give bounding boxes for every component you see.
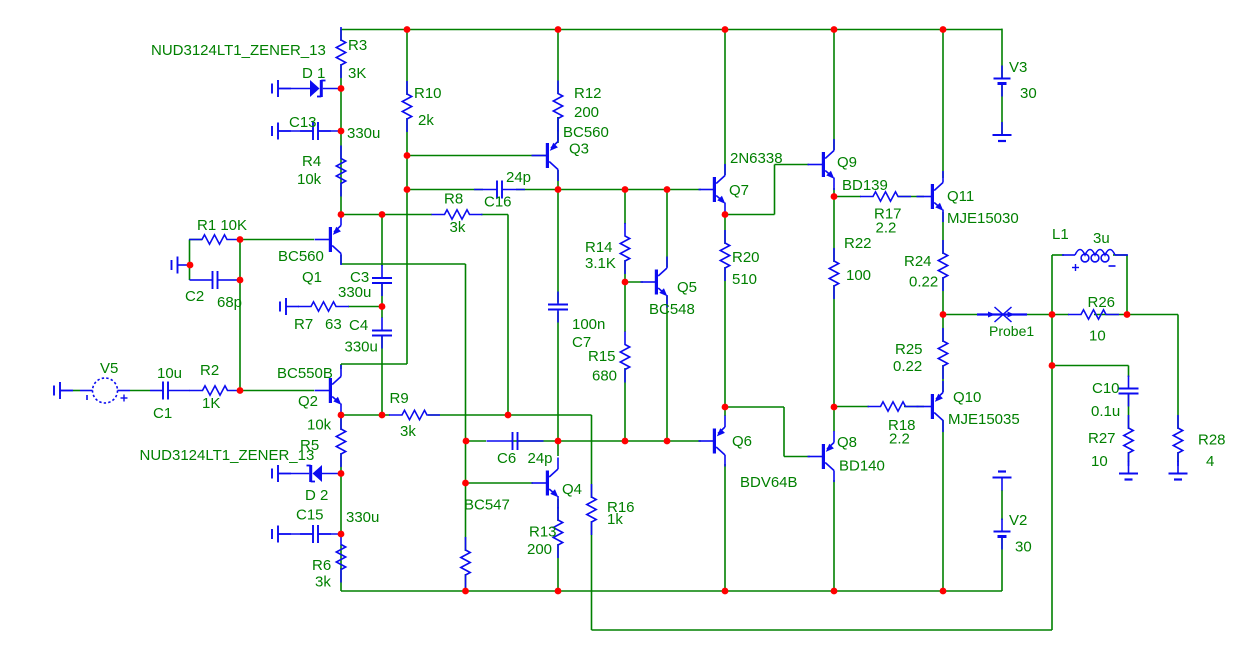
svg-text:BC550B: BC550B [277, 365, 333, 382]
wire R10 column [406, 29, 408, 95]
svg-text:30: 30 [1020, 85, 1037, 102]
capacitor C4 [372, 330, 392, 332]
junction node C6 left [463, 438, 470, 445]
wire Q8 collector down [833, 480, 835, 591]
zener diode D2 [271, 469, 273, 479]
zener diode D1 [271, 84, 273, 94]
wire Q3 emitter R12 [557, 117, 559, 140]
junction node rail Q9 [831, 26, 838, 33]
resistor R1 [189, 235, 240, 244]
resistor R10 [402, 81, 411, 132]
junction node feedback tap [1049, 362, 1056, 369]
junction node D1 [338, 85, 345, 92]
junction node C16 right [555, 186, 562, 193]
svg-text:Q10: Q10 [953, 389, 981, 406]
svg-text:Q1: Q1 [302, 269, 322, 286]
svg-text:MJE15035: MJE15035 [948, 411, 1020, 428]
svg-text:BC548: BC548 [649, 301, 695, 318]
svg-text:BDV64B: BDV64B [740, 474, 798, 491]
svg-text:1k: 1k [607, 511, 623, 528]
svg-text:3.1K: 3.1K [585, 255, 616, 272]
junction node R1 right [237, 236, 244, 243]
svg-text:C1: C1 [153, 405, 172, 422]
svg-text:R4: R4 [302, 153, 321, 170]
resistor R13 [553, 507, 562, 558]
svg-text:R3: R3 [348, 37, 367, 54]
resistor R16 [587, 484, 596, 535]
resistor R4 [336, 146, 345, 197]
svg-text:R6: R6 [312, 557, 331, 574]
resistor R26 [1068, 310, 1119, 319]
svg-text:330u: 330u [345, 339, 378, 356]
capacitor C16 [496, 181, 498, 199]
resistor R9 [389, 410, 440, 419]
svg-text:68p: 68p [217, 294, 242, 311]
capacitor C3 [372, 277, 392, 279]
junction node Q6 emitter [722, 404, 729, 411]
svg-text:R15: R15 [588, 348, 616, 365]
svg-text:C13: C13 [289, 114, 317, 131]
svg-text:R8: R8 [444, 191, 463, 208]
resistor R11 [461, 537, 470, 588]
junction node D2 [338, 470, 345, 477]
resistor R14 [620, 223, 629, 274]
resistor R12 [553, 81, 562, 132]
junction node Q5 emitter [664, 438, 671, 445]
svg-text:C6: C6 [497, 450, 516, 467]
junction node R4/Q1e [338, 211, 345, 218]
wire Q3 collector to C16 node [557, 170, 559, 190]
svg-text:D 2: D 2 [305, 487, 328, 504]
svg-text:Q4: Q4 [562, 481, 582, 498]
wire V3 column [1001, 29, 1003, 79]
battery V2 [1001, 519, 1003, 532]
capacitor C6 [512, 432, 514, 450]
wire Q6 emitter row to Q8 [725, 406, 784, 408]
capacitor C1 [150, 390, 163, 392]
wire R12 column [557, 29, 559, 94]
L1 polarity marks [1072, 267, 1079, 269]
svg-text:C4: C4 [349, 317, 368, 334]
resistor R5 [336, 416, 345, 467]
junction node rail Q11 [940, 26, 947, 33]
junction node rail R12 [555, 26, 562, 33]
svg-text:3k: 3k [400, 423, 416, 440]
source V5 [93, 378, 118, 403]
svg-text:BD140: BD140 [839, 458, 885, 475]
wire Q2 base row [240, 390, 314, 392]
junction node rail R10 [404, 26, 411, 33]
junction node Q7 emitter [722, 211, 729, 218]
svg-text:C16: C16 [484, 194, 512, 211]
svg-text:3k: 3k [450, 219, 466, 236]
wire C7 column [557, 190, 559, 303]
svg-text:Q3: Q3 [569, 141, 589, 158]
capacitor C13 [271, 126, 273, 136]
svg-text:Q9: Q9 [837, 154, 857, 171]
wire R25 column [942, 315, 944, 343]
transistor Q6 BDV64B PNP [713, 429, 716, 454]
wire R1 output to vertical [239, 240, 241, 391]
wire R13 column [557, 499, 559, 521]
svg-text:330u: 330u [346, 509, 379, 526]
resistor R2 [190, 386, 241, 395]
wire Q4 base row [465, 441, 467, 483]
wire R26 to R28 corner [1127, 314, 1178, 316]
resistor R18 [868, 402, 919, 411]
transistor Q7 2N6338 NPN [713, 177, 716, 202]
svg-text:R22: R22 [844, 235, 872, 252]
svg-text:R28: R28 [1198, 432, 1226, 449]
wire Q2 collector row [340, 364, 342, 369]
resistor R22 [829, 248, 838, 299]
capacitor C10 [1119, 388, 1139, 390]
svg-text:R12: R12 [574, 85, 602, 102]
junction node rail Q7 [722, 26, 729, 33]
svg-text:R24: R24 [904, 253, 932, 270]
svg-text:510: 510 [732, 271, 757, 288]
ground V2 [998, 470, 1006, 472]
svg-text:200: 200 [527, 541, 552, 558]
svg-text:R10: R10 [414, 85, 442, 102]
wire output row [943, 314, 977, 316]
svg-text:BC560: BC560 [563, 124, 609, 141]
battery V3 [1001, 66, 1003, 79]
wire Q7 emitter row [725, 214, 775, 216]
junction node rail R11 [462, 588, 469, 595]
svg-text:BC547: BC547 [464, 497, 510, 514]
wire zobel row [1052, 365, 1129, 367]
svg-text:2.2: 2.2 [876, 220, 897, 237]
junction node C3 top [379, 211, 386, 218]
svg-text:R27: R27 [1088, 430, 1116, 447]
junction node C16 left [404, 186, 411, 193]
wire R22 column [833, 197, 835, 263]
svg-text:Q2: Q2 [298, 393, 318, 410]
junction node C2 ground [187, 262, 194, 269]
wire Q10 collector down [942, 420, 944, 591]
svg-text:MJE15030: MJE15030 [947, 210, 1019, 227]
ground V3 [1001, 122, 1003, 135]
probe Probe1 [977, 313, 1027, 315]
resistor R7 [298, 302, 349, 311]
svg-text:3K: 3K [348, 65, 366, 82]
wire output to R26 [1052, 314, 1069, 316]
junction node Q9 emitter [831, 193, 838, 200]
svg-text:30: 30 [1015, 539, 1032, 556]
svg-text:Q11: Q11 [947, 188, 974, 205]
junction node Q4 base [462, 480, 469, 487]
svg-text:Q6: Q6 [732, 433, 752, 450]
wire C16 row / Q7 base row [407, 189, 483, 191]
wire feedback node down [1051, 315, 1053, 366]
wire R15 column [624, 282, 626, 332]
transistor Q8 BD140 PNP [822, 444, 825, 469]
svg-text:Q8: Q8 [837, 434, 857, 451]
resistor R25 [938, 328, 947, 379]
wire Q1 base row [240, 239, 314, 241]
wire R24 column [942, 212, 944, 254]
svg-text:2k: 2k [418, 112, 434, 129]
wire L1 branch [1051, 255, 1053, 315]
junction node rail R13 [555, 588, 562, 595]
resistor R8 [432, 210, 483, 219]
transistor Q9 BD139 NPN [822, 152, 825, 177]
wire R18 row [834, 406, 869, 408]
resistor R24 [938, 240, 947, 291]
junction node C2 right [237, 277, 244, 284]
resistor R27 [1124, 415, 1133, 466]
junction node C3 bottom R7 [379, 303, 386, 310]
ground for V5 [53, 386, 55, 396]
svg-text:V2: V2 [1009, 512, 1027, 529]
wire C6 row [466, 440, 487, 442]
transistor Q4 BC547 NPN [546, 471, 549, 496]
svg-text:10u: 10u [157, 365, 182, 382]
svg-text:0.22: 0.22 [893, 358, 922, 375]
svg-text:R20: R20 [732, 249, 760, 266]
svg-text:R2: R2 [200, 362, 219, 379]
svg-text:330u: 330u [347, 125, 380, 142]
svg-text:2.2: 2.2 [889, 431, 910, 448]
wire Q5 emitter down [666, 296, 668, 441]
svg-text:680: 680 [592, 368, 617, 385]
wire R9 row [341, 414, 390, 416]
svg-text:BD139: BD139 [842, 177, 888, 194]
wire Q1 collector row [340, 255, 342, 264]
svg-text:24p: 24p [506, 169, 531, 186]
svg-text:4: 4 [1206, 453, 1214, 470]
svg-text:10: 10 [1089, 328, 1106, 345]
svg-text:NUD3124LT1_ZENER_13: NUD3124LT1_ZENER_13 [151, 42, 326, 59]
svg-text:10k: 10k [297, 171, 322, 188]
wire R5 R6 column [340, 415, 342, 430]
svg-text:100: 100 [846, 267, 871, 284]
capacitor C7 [548, 304, 568, 306]
svg-text:R1 10K: R1 10K [197, 217, 247, 234]
svg-text:100n: 100n [572, 316, 605, 333]
junction node Q3 base [404, 152, 411, 159]
junction node Q2 emitter [338, 412, 345, 419]
wire Q5 base [625, 281, 643, 283]
wire feedback bottom run [592, 629, 1053, 631]
svg-text:C2: C2 [185, 288, 204, 305]
wire R8 right corner [481, 214, 508, 216]
capacitor C15 [271, 529, 273, 539]
svg-text:24p: 24p [528, 450, 553, 467]
junction node output probe [1049, 311, 1056, 318]
svg-text:63: 63 [325, 316, 342, 333]
ground R27 [1128, 461, 1130, 474]
junction node R15 bottom [622, 438, 629, 445]
junction node Q5 collector [664, 186, 671, 193]
svg-text:3k: 3k [315, 574, 331, 591]
ground R28 [1177, 461, 1179, 474]
svg-text:200: 200 [574, 104, 599, 121]
wire R3 column [340, 29, 342, 41]
svg-text:10: 10 [1091, 453, 1108, 470]
wire Q9 collector column [833, 29, 835, 150]
svg-text:330u: 330u [338, 284, 371, 301]
junction node R14 top [622, 186, 629, 193]
transistor Q1 BC560 PNP [329, 227, 332, 252]
svg-text:R13: R13 [529, 524, 557, 541]
wire Q9 emitter to R17 [834, 196, 861, 198]
svg-text:V5: V5 [100, 360, 118, 377]
svg-text:R7: R7 [294, 316, 313, 333]
junction node input [237, 387, 244, 394]
svg-text:R14: R14 [585, 239, 613, 256]
resistor R3 [336, 27, 345, 78]
junction node C13 [338, 128, 345, 135]
junction node rail Q6 [722, 588, 729, 595]
wire V2 column [1001, 490, 1003, 520]
wire Q3 base [407, 155, 546, 157]
ground for R7 [279, 302, 281, 312]
svg-text:R25: R25 [895, 341, 923, 358]
svg-text:BC560: BC560 [278, 248, 324, 265]
junction node Q8 emitter [831, 404, 838, 411]
resistor R6 [336, 532, 345, 583]
svg-text:0.1u: 0.1u [1091, 403, 1120, 420]
resistor R20 [720, 230, 729, 281]
capacitor C2 [171, 260, 173, 270]
junction node R26 right [1124, 311, 1131, 318]
wire Q6 collector down [724, 464, 726, 591]
wire bottom rail [341, 590, 1002, 592]
junction node R8 bottom [505, 412, 512, 419]
junction node C4 bottom [379, 412, 386, 419]
svg-text:Q5: Q5 [677, 279, 697, 296]
wire R27 to ground [1128, 452, 1130, 462]
wire Q7 collector column [724, 29, 726, 175]
svg-text:V3: V3 [1009, 59, 1027, 76]
svg-text:0.22: 0.22 [909, 274, 938, 291]
wire C3 C4 column [381, 215, 383, 267]
wire R17 to Q11 base [898, 196, 924, 198]
junction node rail Q10 [940, 588, 947, 595]
wire Q5 collector [666, 190, 668, 268]
wire R16 feedback column [591, 415, 593, 498]
resistor R17 [860, 192, 911, 201]
junction node Q5 base [622, 279, 629, 286]
wire R20 column [724, 215, 726, 245]
wire R14 top [624, 190, 626, 225]
wire R1 left branch [190, 239, 203, 241]
transistor Q10 MJE15035 PNP [931, 394, 934, 419]
svg-text:NUD3124LT1_ZENER_13: NUD3124LT1_ZENER_13 [140, 447, 315, 464]
wire Q4 collector [557, 441, 559, 456]
transistor Q11 MJE15030 NPN [931, 184, 934, 209]
resistor R28 [1173, 415, 1182, 466]
svg-text:R9: R9 [390, 390, 409, 407]
transistor Q3 BC560 PNP [546, 143, 549, 168]
junction node C15 [338, 531, 345, 538]
wire R7 row [348, 306, 382, 308]
transistor Q2 BC550B NPN [329, 378, 332, 403]
wire Q11 collector column [942, 29, 944, 178]
transistor Q5 BC548 NPN [655, 270, 658, 295]
wire R11 column [465, 483, 467, 551]
svg-text:C15: C15 [296, 507, 324, 524]
svg-text:Q7: Q7 [729, 182, 749, 199]
wire Q9 base row [775, 164, 810, 166]
junction node output R24 [940, 311, 947, 318]
svg-text:C10: C10 [1092, 380, 1120, 397]
svg-text:10k: 10k [307, 417, 332, 434]
svg-text:3u: 3u [1093, 230, 1110, 247]
wire top positive rail [341, 29, 1002, 31]
svg-text:2N6338: 2N6338 [730, 150, 783, 167]
junction node C6 right Q4c [555, 438, 562, 445]
svg-text:R26: R26 [1088, 294, 1116, 311]
svg-text:Probe1: Probe1 [989, 323, 1034, 339]
svg-text:L1: L1 [1052, 226, 1069, 243]
svg-text:D 1: D 1 [302, 65, 325, 82]
resistor R15 [620, 332, 629, 383]
wire Q1 emitter row (R4 node to R8) [341, 214, 432, 216]
svg-text:1K: 1K [202, 395, 220, 412]
wire R28 to ground [1177, 452, 1179, 462]
inductor L1 [1075, 250, 1115, 256]
junction node rail Q8 [831, 588, 838, 595]
